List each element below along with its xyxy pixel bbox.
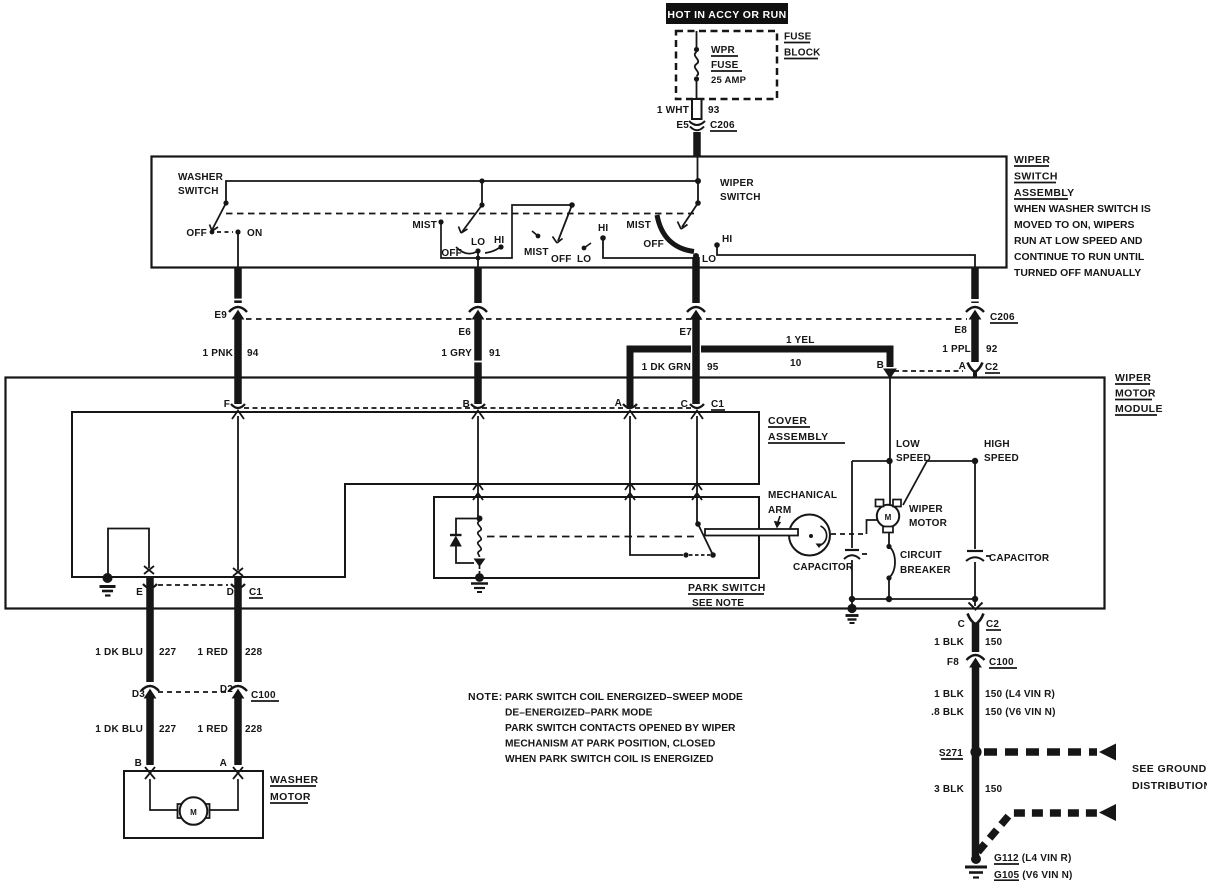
svg-text:DISTRIBUTION: DISTRIBUTION [1132, 780, 1207, 792]
svg-text:M: M [885, 513, 892, 522]
svg-text:1 YEL: 1 YEL [786, 335, 815, 346]
svg-text:1 BLK: 1 BLK [934, 689, 964, 700]
wire 1 GRY 91 [474, 317, 482, 404]
connector C100 dashed line [158, 691, 226, 693]
svg-text:WASHER: WASHER [270, 774, 319, 786]
connector C100 pin F8 [967, 655, 985, 667]
svg-text:PARK SWITCH: PARK SWITCH [688, 582, 766, 594]
svg-text:B: B [463, 399, 470, 410]
wire internal feed bus [226, 181, 698, 203]
svg-text:1 GRY: 1 GRY [441, 348, 472, 359]
fuse block label [784, 32, 821, 59]
svg-text:OFF: OFF [186, 228, 207, 239]
svg-text:BREAKER: BREAKER [900, 565, 951, 576]
svg-text:RUN AT LOW SPEED AND: RUN AT LOW SPEED AND [1014, 236, 1143, 247]
svg-text:B: B [877, 360, 884, 371]
svg-text:COVER: COVER [768, 415, 807, 427]
wire E to washer motor [146, 578, 154, 682]
svg-text:HI: HI [494, 235, 504, 246]
svg-text:E: E [136, 587, 143, 598]
svg-text:NOTE:: NOTE: [468, 691, 503, 703]
svg-text:228: 228 [245, 647, 263, 658]
svg-text:WPR: WPR [711, 45, 736, 56]
note text [468, 691, 743, 765]
wiper motor M [876, 500, 902, 533]
wiper motor module label [1115, 372, 1163, 415]
svg-text:ON: ON [247, 228, 262, 239]
washer switch label [178, 172, 224, 197]
washer motor M [178, 797, 210, 825]
svg-text:150 (V6 VIN N): 150 (V6 VIN N) [985, 707, 1056, 718]
svg-text:C1: C1 [249, 587, 262, 598]
svg-text:1 BLK: 1 BLK [934, 637, 964, 648]
connector C1 pin D [231, 584, 245, 588]
wire 1 BLK /.8 BLK 150 [972, 665, 980, 748]
svg-text:D2: D2 [220, 684, 233, 695]
svg-text:SEE NOTE: SEE NOTE [692, 598, 744, 609]
svg-text:93: 93 [708, 105, 720, 116]
svg-text:1 RED: 1 RED [198, 724, 228, 735]
cover assembly box [72, 412, 759, 577]
ground (park coil) [471, 573, 488, 592]
svg-text:E7: E7 [679, 327, 692, 338]
svg-text:227: 227 [159, 724, 177, 735]
svg-text:M: M [190, 808, 197, 817]
connector C1 pin A [623, 404, 637, 419]
svg-text:MODULE: MODULE [1115, 403, 1163, 415]
svg-text:HIGH: HIGH [984, 439, 1010, 450]
connector C2 dashed line [894, 370, 963, 372]
connector C206 dashed line [246, 318, 967, 320]
svg-text:A: A [220, 758, 227, 769]
svg-text:C: C [958, 619, 965, 630]
svg-text:OFF: OFF [441, 248, 462, 259]
svg-text:WIPER: WIPER [1014, 154, 1050, 166]
washer motor pins B/A arrows [145, 767, 155, 779]
module ground bus [852, 598, 975, 600]
svg-text:94: 94 [247, 348, 259, 359]
wire to ground distribution (lower) [978, 813, 1097, 852]
wire 1 PPL 92 [971, 317, 979, 362]
svg-text:PARK SWITCH COIL ENERGIZED–SWE: PARK SWITCH COIL ENERGIZED–SWEEP MODE [505, 692, 743, 703]
svg-text:C2: C2 [985, 362, 998, 373]
svg-text:FUSE: FUSE [711, 60, 739, 71]
power feed label HOT IN ACCY OR RUN [666, 3, 788, 24]
svg-text:1 PPL: 1 PPL [942, 344, 971, 355]
svg-text:1 PNK: 1 PNK [203, 348, 234, 359]
svg-text:D3: D3 [132, 689, 145, 700]
svg-text:MECHANISM AT PARK POSITION, CL: MECHANISM AT PARK POSITION, CLOSED [505, 739, 715, 750]
svg-text:WHEN PARK SWITCH COIL IS ENERG: WHEN PARK SWITCH COIL IS ENERGIZED [505, 754, 713, 765]
svg-text:TURNED OFF MANUALLY: TURNED OFF MANUALLY [1014, 268, 1141, 279]
svg-text:WIPER: WIPER [1115, 372, 1151, 384]
wiper switch blade [678, 157, 701, 229]
svg-text:1 WHT: 1 WHT [657, 105, 689, 116]
svg-text:F8: F8 [947, 657, 959, 668]
svg-text:G112 (L4 VIN R): G112 (L4 VIN R) [994, 853, 1071, 864]
svg-text:BLOCK: BLOCK [784, 48, 821, 59]
svg-text:MOTOR: MOTOR [270, 791, 311, 803]
ground (cover assembly) [100, 573, 116, 596]
connector C2 pin A (module entry) [968, 363, 983, 378]
svg-text:92: 92 [986, 344, 998, 355]
ground loop at E [108, 529, 149, 575]
svg-text:SEE GROUND: SEE GROUND [1132, 763, 1207, 775]
park switch label [688, 582, 766, 609]
svg-text:227: 227 [159, 647, 177, 658]
wiper motor module box [6, 378, 1105, 609]
wiper switch assembly label and note [1014, 154, 1151, 279]
svg-text:DE–ENERGIZED–PARK MODE: DE–ENERGIZED–PARK MODE [505, 708, 653, 719]
svg-text:MIST: MIST [524, 247, 549, 258]
diode [450, 519, 477, 564]
ground (module) [846, 599, 859, 623]
wire 1 WHT 93 (unprotected hollow segment) [692, 99, 702, 119]
wire E7 vertical [692, 257, 700, 303]
svg-text:D: D [227, 587, 234, 598]
wire D to washer motor [234, 578, 242, 682]
svg-text:1 DK GRN: 1 DK GRN [642, 362, 691, 373]
wire E5 to switch assembly [693, 132, 701, 157]
node LO [693, 253, 699, 259]
mechanical linkage dashed (arm to motor) [831, 533, 864, 535]
svg-text:HOT IN ACCY OR RUN: HOT IN ACCY OR RUN [667, 9, 786, 21]
park switch coil [475, 516, 485, 575]
svg-text:ASSEMBLY: ASSEMBLY [1014, 187, 1075, 199]
svg-text:HI: HI [598, 223, 608, 234]
switch wafer 2 MIST/OFF/LO/HI [532, 202, 694, 258]
svg-text:S271: S271 [939, 748, 963, 759]
svg-text:E8: E8 [954, 325, 967, 336]
svg-text:LOW: LOW [896, 439, 920, 450]
fuse WPR FUSE 25 AMP [694, 31, 699, 99]
svg-text:C206: C206 [990, 312, 1015, 323]
mechanical linkage dashed (park) [487, 536, 694, 538]
washer motor label [270, 774, 319, 803]
wire washer switch to E9 [237, 232, 239, 268]
fuse block dashed box [676, 31, 777, 99]
svg-text:C100: C100 [989, 657, 1014, 668]
svg-text:150: 150 [985, 637, 1003, 648]
svg-text:228: 228 [245, 724, 263, 735]
connector C1 dashed line [244, 407, 692, 409]
wire low speed node [889, 378, 891, 505]
connector C206 pin E7 [687, 307, 705, 319]
svg-text:LO: LO [702, 254, 716, 265]
node HI [714, 242, 720, 248]
svg-text:1 DK BLU: 1 DK BLU [95, 724, 143, 735]
capacitor (left) [844, 461, 867, 599]
svg-text:CAPACITOR: CAPACITOR [989, 553, 1050, 564]
svg-text:E9: E9 [214, 310, 227, 321]
svg-text:91: 91 [489, 348, 501, 359]
svg-text:150: 150 [985, 784, 1003, 795]
washer motor box [124, 771, 263, 838]
connector C1 pin B [471, 404, 485, 419]
wire 1 YEL 10 [630, 349, 691, 408]
svg-text:LO: LO [577, 254, 591, 265]
wire F to D internal [237, 416, 239, 570]
svg-text:E5: E5 [676, 120, 689, 131]
svg-text:LO: LO [471, 237, 485, 248]
svg-text:OFF: OFF [551, 254, 572, 265]
svg-text:E6: E6 [458, 327, 471, 338]
svg-text:MOTOR: MOTOR [1115, 388, 1156, 400]
svg-text:1 DK BLU: 1 DK BLU [95, 647, 143, 658]
wire E8 vertical [971, 267, 979, 299]
svg-text:95: 95 [707, 362, 719, 373]
washer motor internal wiring [150, 779, 178, 810]
svg-text:FUSE: FUSE [784, 32, 812, 43]
svg-text:MECHANICAL: MECHANICAL [768, 490, 837, 501]
wire A to park contact [630, 416, 683, 555]
splice S271 [939, 748, 963, 759]
svg-text:SWITCH: SWITCH [720, 192, 761, 203]
mechanical arm disc [705, 515, 830, 556]
svg-text:ARM: ARM [768, 505, 791, 516]
connector C1 pin E [143, 584, 157, 588]
svg-text:A: A [615, 398, 622, 409]
svg-text:CONTINUE TO RUN UNTIL: CONTINUE TO RUN UNTIL [1014, 252, 1145, 263]
svg-text:C100: C100 [251, 690, 276, 701]
wire high speed node [927, 460, 975, 462]
connector C206 pin E8 [966, 307, 984, 319]
wire to ground distribution (upper) [984, 748, 1097, 756]
wire 1 RED 228 lower [234, 696, 242, 765]
wire B to park coil [477, 416, 479, 517]
wire 1 PNK 94 [234, 317, 242, 404]
svg-text:SWITCH: SWITCH [178, 186, 219, 197]
cover assembly label [768, 415, 829, 443]
svg-text:G105 (V6 VIN N): G105 (V6 VIN N) [994, 870, 1073, 881]
svg-text:150 (L4 VIN R): 150 (L4 VIN R) [985, 689, 1055, 700]
svg-text:1 RED: 1 RED [198, 647, 228, 658]
svg-text:3 BLK: 3 BLK [934, 784, 964, 795]
module exit arrow C [974, 599, 976, 606]
svg-text:C: C [681, 399, 688, 410]
svg-text:B: B [135, 758, 142, 769]
svg-text:CIRCUIT: CIRCUIT [900, 550, 942, 561]
svg-text:WIPER: WIPER [909, 504, 943, 515]
connector C100 pin D3 [141, 686, 159, 698]
wire C to park pivot [696, 416, 698, 522]
wire 1 DK BLU 227 lower [146, 696, 154, 765]
node wiper switch feed [695, 178, 701, 184]
connector C100 pin D2 [229, 686, 247, 698]
svg-text:SWITCH: SWITCH [1014, 171, 1058, 183]
park switch box [434, 497, 759, 578]
svg-text:C206: C206 [710, 120, 735, 131]
svg-text:MOVED TO ON, WIPERS: MOVED TO ON, WIPERS [1014, 220, 1135, 231]
wire HI to E8 exit [717, 245, 975, 267]
wire 3 BLK 150 [972, 748, 980, 856]
svg-text:OFF: OFF [643, 239, 664, 250]
module entry arrow B [884, 369, 896, 378]
svg-text:10: 10 [790, 358, 802, 369]
mechanical linkage dashed line [226, 213, 694, 215]
wire 1 BLK 150 [972, 623, 980, 652]
connector C2 pin C [968, 614, 984, 625]
svg-text:F: F [224, 399, 230, 410]
wire E6 vertical [474, 268, 482, 303]
wire E9 vertical [234, 268, 242, 303]
svg-text:CAPACITOR: CAPACITOR [793, 562, 854, 573]
svg-text:WASHER: WASHER [178, 172, 224, 183]
node switch1 feed [479, 178, 484, 183]
svg-text:WHEN WASHER SWITCH IS: WHEN WASHER SWITCH IS [1014, 204, 1151, 215]
svg-text:PARK SWITCH CONTACTS OPENED BY: PARK SWITCH CONTACTS OPENED BY WIPER [505, 723, 736, 734]
svg-text:MIST: MIST [412, 220, 437, 231]
svg-text:ASSEMBLY: ASSEMBLY [768, 431, 829, 443]
wire 1 DK GRN 95 [692, 317, 700, 404]
svg-text:SPEED: SPEED [984, 453, 1019, 464]
connector C1 pin C [690, 404, 704, 419]
park switch contacts [683, 521, 715, 558]
connector C1 dashed line (E-D) [158, 584, 228, 586]
capacitor (right) [966, 461, 991, 599]
wiper switch contact arc [657, 215, 694, 252]
svg-text:HI: HI [722, 234, 732, 245]
switch wafer 1 MIST/OFF/LO/HI [438, 181, 570, 268]
svg-text:C2: C2 [986, 619, 999, 630]
connector C206 pin E6 [469, 307, 487, 319]
circuit breaker [886, 533, 895, 600]
mechanical arm label [768, 490, 837, 516]
svg-text:MOTOR: MOTOR [909, 518, 948, 529]
svg-text:.8 BLK: .8 BLK [931, 707, 964, 718]
ground G112/G105 [965, 854, 987, 878]
wiper switch assembly box [152, 157, 1007, 268]
connector C206 pin E5 [689, 121, 705, 130]
connector C1 pin F [231, 404, 245, 419]
washer switch blade and contacts [210, 200, 241, 234]
svg-text:WIPER: WIPER [720, 178, 754, 189]
svg-text:25 AMP: 25 AMP [711, 75, 747, 86]
svg-text:MIST: MIST [626, 220, 651, 231]
connector C206 pin E9 [229, 307, 247, 319]
svg-text:C1: C1 [711, 399, 724, 410]
